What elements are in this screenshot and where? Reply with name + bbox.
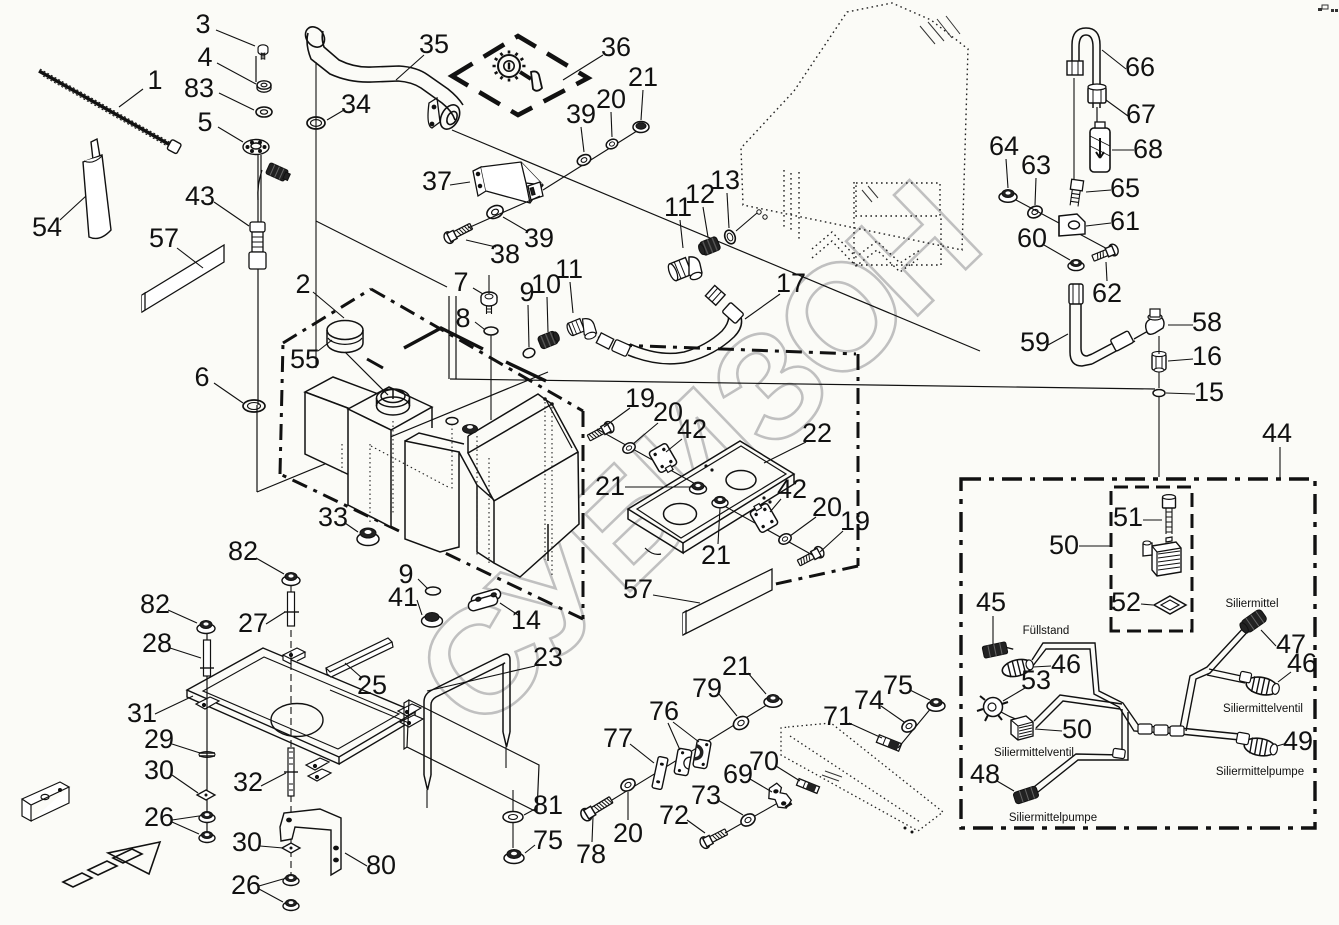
svg-text:Siliermittel: Siliermittel: [1225, 598, 1278, 610]
svg-text:29: 29: [144, 724, 174, 754]
svg-text:14: 14: [511, 605, 541, 635]
bolt 72: [698, 826, 729, 850]
elbow 11b: [666, 257, 702, 282]
svg-text:4: 4: [197, 42, 212, 72]
svg-text:25: 25: [357, 670, 387, 700]
svg-text:30: 30: [144, 755, 174, 785]
o-ring 15: [1153, 390, 1165, 397]
fitting 12: [697, 236, 722, 258]
plate 42a: [648, 443, 679, 476]
middle box: [405, 433, 464, 444]
nut 64: [999, 190, 1017, 203]
rod 32: [284, 748, 298, 796]
svg-text:27: 27: [238, 608, 268, 638]
svg-text:57: 57: [149, 223, 179, 253]
svg-text:75: 75: [533, 825, 563, 855]
elbow 58: [1146, 309, 1164, 334]
svg-text:28: 28: [142, 628, 172, 658]
dashed diamond 36: [452, 36, 588, 115]
nut 67: [1088, 84, 1106, 103]
valve 51 screw: [1163, 495, 1176, 534]
svg-text:1: 1: [147, 65, 162, 95]
small washer on tank top: [446, 418, 458, 425]
bolt 7: [481, 292, 497, 314]
right wedge box: [468, 394, 552, 436]
bold lambda overlay on box 2: [404, 328, 483, 349]
machine hatch lines: [862, 16, 960, 202]
side panel under plate: [330, 690, 539, 812]
rod 28 column: [206, 634, 208, 840]
hose 59: [1069, 284, 1148, 366]
direction arrow: [63, 842, 160, 887]
tiny connection dots for ring 13 leader: [757, 210, 761, 214]
svg-text:41: 41: [388, 582, 418, 612]
connector 47: [1238, 608, 1268, 635]
svg-text:16: 16: [1192, 341, 1222, 371]
svg-text:21: 21: [722, 651, 752, 681]
svg-text:Füllstand: Füllstand: [1023, 625, 1070, 637]
svg-text:61: 61: [1110, 206, 1140, 236]
svg-text:26: 26: [231, 870, 261, 900]
connector 46b: [1245, 674, 1281, 698]
svg-text:83: 83: [184, 73, 214, 103]
svg-text:71: 71: [823, 701, 853, 731]
svg-text:75: 75: [883, 670, 913, 700]
plate 42b: [748, 500, 779, 533]
washer 74: [900, 717, 918, 734]
svg-text:79: 79: [692, 673, 722, 703]
strap 25: [326, 638, 393, 677]
ring 9b: [426, 587, 441, 595]
nut 75a: [504, 850, 524, 864]
dark filler nut on tank: [463, 425, 478, 434]
svg-text:48: 48: [970, 759, 1000, 789]
washer 20d: [619, 776, 637, 793]
nut 82b: [282, 573, 300, 586]
svg-text:82: 82: [228, 536, 258, 566]
connector 48: [1013, 786, 1040, 805]
nut 60: [1068, 260, 1084, 271]
nuts 26b: [283, 875, 299, 886]
connector 53: [977, 696, 1025, 722]
svg-text:20: 20: [613, 818, 643, 848]
leader 64-63-61-62: [1016, 200, 1113, 252]
svg-text:3: 3: [195, 9, 210, 39]
svg-text:2: 2: [295, 269, 310, 299]
bracket 80: [280, 809, 341, 875]
pin 70: [796, 779, 819, 794]
nuts 26a: [199, 812, 215, 823]
svg-text:44: 44: [1262, 418, 1292, 448]
left bracket piece: [22, 782, 69, 821]
svg-text:33: 33: [318, 502, 348, 532]
washer 29: [199, 753, 215, 756]
pin 71: [876, 735, 901, 751]
dotted chute (spout) bottom right: [781, 723, 943, 831]
sealant tube 54: [83, 139, 111, 238]
plate 77: [652, 756, 668, 789]
svg-text:36: 36: [601, 32, 631, 62]
svg-text:38: 38: [490, 239, 520, 269]
svg-text:13: 13: [710, 165, 740, 195]
svg-text:50: 50: [1062, 714, 1092, 744]
dash-dot box 2: [280, 289, 583, 619]
bolt 19a: [586, 420, 616, 444]
nut 21b dark: [712, 496, 728, 507]
washer 20a: [621, 441, 637, 456]
svg-text:43: 43: [185, 181, 215, 211]
svg-text:30: 30: [232, 827, 262, 857]
dotted projection lines inside tank: [342, 402, 552, 575]
valve 50 body: [1143, 537, 1181, 576]
sensor screw 3: [258, 45, 268, 60]
back-left box: [305, 377, 405, 419]
nut 75b: [927, 699, 945, 712]
sensor connector plug: [265, 162, 291, 182]
riser to L1: [449, 296, 456, 379]
svg-text:6: 6: [194, 362, 209, 392]
clamp halves 76: [674, 748, 692, 776]
svg-text:21: 21: [595, 471, 625, 501]
washer 79: [731, 714, 751, 732]
svg-text:34: 34: [341, 89, 371, 119]
svg-text:53: 53: [1021, 665, 1051, 695]
svg-text:39: 39: [566, 99, 596, 129]
sensor washer 83: [256, 107, 272, 117]
dash-dot extension to right: [616, 345, 858, 590]
svg-text:Siliermittelventil: Siliermittelventil: [1223, 703, 1303, 715]
leader diagonal through 38-39-37: [468, 196, 540, 228]
plate tabs: [196, 648, 423, 781]
svg-text:68: 68: [1133, 134, 1163, 164]
cable tie 1: [39, 69, 182, 154]
svg-text:81: 81: [533, 790, 563, 820]
mounting plate 31: [187, 648, 415, 764]
svg-text:Siliermittelpumpe: Siliermittelpumpe: [1009, 812, 1097, 824]
svg-text:73: 73: [691, 780, 721, 810]
nut 21d: [764, 695, 782, 708]
svg-text:19: 19: [840, 506, 870, 536]
svg-text:20: 20: [596, 84, 626, 114]
stud 65: [1068, 179, 1084, 206]
svg-text:20: 20: [812, 492, 842, 522]
svg-text:37: 37: [422, 166, 452, 196]
svg-text:54: 54: [32, 212, 62, 242]
svg-text:35: 35: [419, 29, 449, 59]
German labels: [994, 598, 1304, 824]
machine silhouette dotted: [741, 3, 968, 272]
svg-text:42: 42: [777, 474, 807, 504]
svg-text:59: 59: [1020, 327, 1050, 357]
square washer 30b: [282, 843, 300, 853]
svg-text:65: 65: [1110, 173, 1140, 203]
svg-text:51: 51: [1113, 502, 1143, 532]
cap in diamond 36: [493, 51, 543, 91]
svg-text:52: 52: [1111, 587, 1141, 617]
washer 73: [739, 811, 757, 828]
svg-text:76: 76: [649, 696, 679, 726]
sensor rod 43: [256, 56, 262, 405]
connector 46a: [1001, 656, 1035, 679]
front-left tall box: [348, 387, 432, 430]
fitting 16: [1152, 351, 1166, 372]
sensor nut 4: [257, 81, 271, 92]
washer 81: [503, 812, 523, 823]
svg-text:66: 66: [1125, 52, 1155, 82]
bracket 61: [1059, 214, 1085, 236]
svg-text:26: 26: [144, 802, 174, 832]
bolt 19b: [796, 545, 826, 569]
nut 21a dark: [690, 482, 707, 494]
svg-text:82: 82: [140, 589, 170, 619]
name plate 57 upper: [142, 245, 224, 312]
nut 82a: [197, 621, 215, 634]
svg-text:80: 80: [366, 850, 396, 880]
svg-text:63: 63: [1021, 150, 1051, 180]
ring 13: [723, 229, 738, 246]
svg-text:77: 77: [603, 723, 633, 753]
svg-text:11: 11: [555, 254, 583, 284]
harness wires: [1030, 624, 1251, 796]
svg-text:8: 8: [455, 303, 470, 333]
washer 39b: [576, 153, 593, 168]
svg-text:49: 49: [1283, 726, 1313, 756]
dash-dot box 44: [961, 479, 1315, 828]
square washer 30a: [197, 790, 215, 800]
construction line to ring 6: [257, 372, 548, 492]
U-bolt 23: [424, 654, 510, 808]
svg-text:72: 72: [659, 800, 689, 830]
construction line L1: [450, 379, 1155, 389]
link plate 14: [467, 588, 502, 612]
svg-text:Siliermittelpumpe: Siliermittelpumpe: [1216, 766, 1304, 778]
cap 55: [327, 321, 388, 396]
svg-text:45: 45: [976, 587, 1006, 617]
washer 63: [1026, 204, 1044, 220]
svg-text:7: 7: [453, 267, 468, 297]
bolt 62: [1091, 243, 1120, 264]
filler pipe 35: [302, 23, 464, 132]
svg-text:21: 21: [628, 62, 658, 92]
washer 20c: [605, 137, 620, 150]
bracket 37: [473, 162, 543, 203]
svg-text:78: 78: [576, 839, 606, 869]
svg-text:70: 70: [749, 746, 779, 776]
pin 27: [284, 592, 299, 626]
bolt 38: [442, 221, 474, 245]
ring 6: [243, 400, 265, 412]
leader line 78-21d: [612, 703, 770, 800]
svg-text:39: 39: [524, 223, 554, 253]
svg-text:23: 23: [533, 642, 563, 672]
filter 68: [1090, 122, 1110, 172]
elbow fitting 11a: [566, 319, 597, 341]
connector 49: [1243, 736, 1279, 759]
hose 17: [596, 285, 744, 363]
svg-text:58: 58: [1192, 307, 1222, 337]
U-tube 66: [1067, 28, 1100, 180]
projection line from pipe: [315, 62, 317, 368]
nut 33: [357, 528, 379, 546]
leader from 8 down: [490, 335, 492, 420]
junction sleeves: [1112, 724, 1184, 759]
svg-text:22: 22: [802, 418, 832, 448]
watermark diagonal outline letters: [384, 149, 1011, 759]
name plate 57 lower: [683, 569, 772, 635]
svg-text:17: 17: [776, 268, 806, 298]
svg-text:42: 42: [677, 414, 707, 444]
svg-text:21: 21: [701, 540, 731, 570]
ring 34: [307, 117, 325, 129]
inner dashed box 50: [1111, 487, 1192, 631]
svg-text:64: 64: [989, 131, 1019, 161]
svg-text:62: 62: [1092, 278, 1122, 308]
filler neck: [377, 389, 410, 415]
connector 50b cube: [1011, 716, 1033, 740]
bolt 78: [579, 794, 615, 823]
svg-text:57: 57: [623, 574, 653, 604]
svg-text:60: 60: [1017, 223, 1047, 253]
dots on tray: [704, 464, 707, 467]
seal 52: [1154, 596, 1186, 614]
stud 28: [200, 640, 214, 676]
plug 41: [422, 613, 443, 628]
washer 20b: [777, 532, 793, 547]
svg-text:19: 19: [625, 383, 655, 413]
connector 45: [982, 640, 1014, 658]
svg-text:74: 74: [854, 685, 884, 715]
nut 21c: [633, 122, 649, 133]
tray 22: [628, 441, 794, 554]
svg-text:46: 46: [1287, 648, 1317, 678]
ring 9a: [522, 347, 536, 360]
washer 39 lower: [485, 203, 505, 221]
construction line from pipe flange: [452, 130, 980, 351]
svg-text:55: 55: [290, 344, 320, 374]
sensor float body: [249, 222, 266, 269]
center rod dashes: [290, 586, 292, 883]
svg-text:50: 50: [1049, 530, 1079, 560]
svg-text:46: 46: [1051, 649, 1081, 679]
svg-text:Siliermittelventil: Siliermittelventil: [994, 747, 1074, 759]
leader diagonal 19a-21a: [597, 429, 699, 486]
long leader to 39b 20c 21c: [543, 124, 648, 190]
sensor flange 5: [243, 140, 269, 155]
svg-text:15: 15: [1194, 377, 1224, 407]
bracket 69: [767, 781, 792, 810]
svg-text:32: 32: [233, 767, 263, 797]
tiny top-right marks: [1318, 5, 1338, 12]
fuel tank body: [305, 377, 579, 577]
ring 8: [484, 327, 498, 335]
fitting 10: [537, 329, 561, 350]
svg-text:67: 67: [1126, 99, 1156, 129]
svg-text:5: 5: [197, 107, 212, 137]
